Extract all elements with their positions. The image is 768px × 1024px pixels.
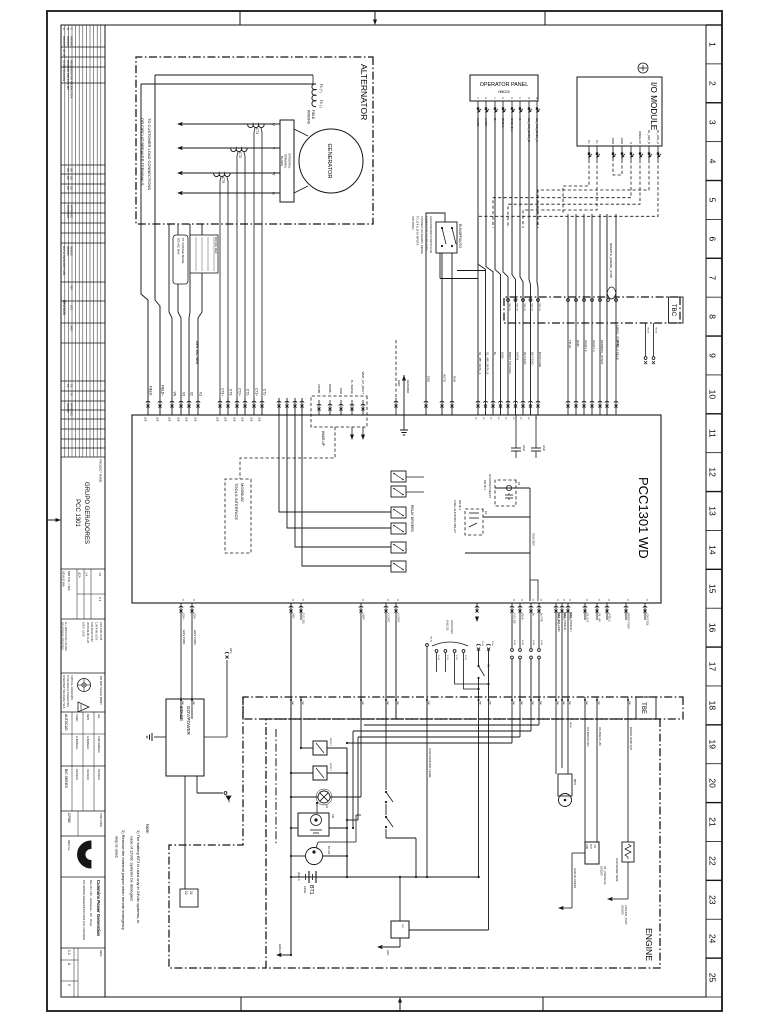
TBE crossings [180,697,630,719]
svg-text:MPU: MPU [573,779,577,785]
svg-text:J18: J18 [185,417,189,422]
svg-text:CK: CK [66,384,69,388]
svg-text:03/03/03: 03/03/03 [86,769,90,780]
svg-text:C-03: C-03 [446,655,448,661]
svg-text:CT2: CT2 [238,152,242,158]
battery positive bus [346,748,348,877]
svg-text:TBE: TBE [427,701,429,706]
svg-text:4: 4 [708,159,718,164]
dashed gnd wire [394,340,401,415]
svg-text:J18: J18 [241,417,245,422]
svg-text:STARTER RELAY: STARTER RELAY [488,474,492,498]
svg-text:0.10-0.99 ±0.25: 0.10-0.99 ±0.25 [99,622,103,641]
svg-text:GB: GB [66,176,69,180]
svg-text:TBC-03: TBC-03 [523,303,525,311]
label TBC [669,297,684,323]
svg-text:C-02: C-02 [455,655,457,661]
svg-text:TB-10: TB-10 [568,340,572,349]
field winding coil [307,84,324,125]
svg-text:TBE: TBE [520,701,522,706]
svg-text:TBC-05: TBC-05 [508,303,510,311]
svg-text:FIELD: FIELD [311,110,315,120]
svg-text:INTERPRET PER ASME Y14.5: INTERPRET PER ASME Y14.5 [62,675,65,709]
operator panel box [470,75,538,101]
svg-text:J18: J18 [156,417,160,422]
svg-text:MAG_PICKUP+: MAG_PICKUP+ [569,612,573,632]
svg-text:TBE: TBE [301,701,303,706]
fuel solenoid FS1 [301,738,347,755]
shield ground group [432,620,490,690]
svg-text:OPERATOR PANEL: OPERATOR PANEL [480,82,529,88]
svg-text:INITIAL RELEASE: INITIAL RELEASE [62,60,66,82]
svg-text:TBE: TBE [361,701,363,706]
svg-text:REVISION: REVISION [62,300,66,316]
svg-text:GND CB07: GND CB07 [532,533,536,547]
svg-text:BT1: BT1 [308,885,314,895]
svg-text:TBE: TBE [531,701,533,706]
svg-text:RELAY DRIVERS: RELAY DRIVERS [410,505,414,533]
svg-text:NOTE 3: NOTE 3 [329,763,331,772]
low coolant level switch [377,636,432,956]
CT1 current transformer [248,124,264,134]
TBC terminal dots [507,299,618,312]
svg-text:1.00-4.99 ±0.50: 1.00-4.99 ±0.50 [95,622,99,641]
svg-text:FAULT 3: FAULT 3 [592,340,596,352]
svg-text:TBE: TBE [396,701,398,706]
PCC left edge terminals (alternator bundle) [144,385,267,422]
switch note text [411,216,433,254]
svg-text:J18: J18 [194,417,198,422]
svg-text:C: C [69,28,73,30]
svg-text:PT VOLTAGE SENSE: PT VOLTAGE SENSE [181,238,185,264]
svg-text:A 4: A 4 [98,597,102,602]
svg-text:BC ALT: BC ALT [327,846,331,855]
svg-text:TBE: TBE [479,701,481,706]
switch wires to PCC [424,213,457,415]
svg-text:RS485+: RS485+ [328,384,332,395]
svg-text:00/00/00: 00/00/00 [66,246,69,256]
generator G1 circle [299,129,363,193]
mag pickup sensor [556,719,577,807]
svg-text:15: 15 [708,584,718,594]
svg-text:11: 11 [708,429,718,438]
svg-text:O-16: O-16 [491,641,493,647]
svg-text:OIL PRESS OUT: OIL PRESS OUT [586,727,590,747]
svg-text:UPDATED PER ECO 123: UPDATED PER ECO 123 [66,60,70,90]
label TBE [636,697,656,719]
svg-text:DO NOT SCALE PRINT: DO NOT SCALE PRINT [99,676,103,705]
svg-text:J18: J18 [168,417,172,422]
TBC group2 wires [566,214,620,415]
svg-text:NOT BOTH.: NOT BOTH. [411,216,415,230]
svg-text:APPROVED: APPROVED [69,205,72,219]
genset lower boundary [169,697,266,968]
battery negative bus [290,603,292,955]
bus junction dots [290,772,348,956]
revision history table [61,25,105,457]
generator to terminal-block leads [294,129,308,193]
svg-text:19: 19 [708,740,718,750]
fuel shutoff relay K2 [453,500,488,535]
svg-text:600 VAC MAX: 600 VAC MAX [214,237,218,254]
svg-text:8: 8 [708,314,718,319]
svg-text:J 8: J 8 [98,572,102,576]
svg-text:TBC-04: TBC-04 [516,303,518,311]
svg-text:OUT-CH2: OUT-CH2 [531,352,535,365]
svg-text:TBE: TBE [556,701,558,706]
inline connector pairs [511,620,542,697]
zone reference strip 1-25 [706,25,722,997]
svg-text:WINDING: WINDING [307,110,311,125]
svg-text:GOV/POWER: GOV/POWER [186,706,191,736]
svg-text:FUEL SOL: FUEL SOL [302,613,305,625]
svg-text:HMI220: HMI220 [498,90,510,94]
label OPERATOR PANEL [480,82,529,94]
pcc interior riser 2 [483,516,530,518]
svg-text:BOOT TO LOAD: BOOT TO LOAD [508,352,512,374]
operator panel wire labels [476,118,539,143]
svg-text:A RUN/OFF/AUTO SWITCH OR: A RUN/OFF/AUTO SWITCH OR [429,216,433,253]
svg-text:PCC1301 WD: PCC1301 WD [636,477,651,559]
svg-text:GB: GB [66,168,69,172]
svg-text:6: 6 [708,236,718,241]
svg-text:AUTOCAD: AUTOCAD [64,714,68,731]
svg-text:RUN: RUN [453,376,457,382]
svg-text:BY: BY [69,393,72,397]
svg-text:SITE CODE: SITE CODE [99,813,103,827]
svg-text:0: 0 [67,984,71,986]
svg-text:CT3-: CT3- [229,389,233,396]
svg-text:9: 9 [708,353,718,358]
capacitor C-gnd 1 [531,415,546,458]
svg-text:Note:: Note: [145,824,150,834]
gov to battery box wires [185,776,231,889]
svg-text:03/03/03: 03/03/03 [97,769,101,780]
svg-text:5.00-29.99 ±0.80: 5.00-29.99 ±0.80 [90,622,94,642]
contact wires [361,620,416,877]
svg-text:CT3+: CT3+ [221,388,225,396]
svg-text:GND: GND [427,376,431,382]
svg-text:K CONT: K CONT [387,613,390,623]
svg-text:NOTE 2: NOTE 2 [483,480,487,491]
PCC1301 main box [132,415,661,603]
TBC boundary strip [504,297,680,323]
io module box [577,77,662,146]
border tick left lower [239,11,241,25]
svg-text:24V: 24V [227,798,231,803]
pcc ground wire [400,375,410,435]
svg-text:RUN/OFF/AUTO: RUN/OFF/AUTO [458,224,462,248]
switch tie-in links [440,253,486,279]
svg-text:24V: 24V [229,648,233,653]
svg-text:03/03/03: 03/03/03 [75,769,79,780]
wake-up arrows [350,427,365,440]
svg-text:ENGINE: ENGINE [644,928,654,961]
svg-text:V3: V3 [182,392,186,396]
border tick right lower [240,997,242,1011]
svg-text:SENDER: SENDER [621,905,624,915]
svg-text:LAMP: LAMP [362,613,365,620]
svg-text:CK: CK [69,384,72,388]
svg-text:WAKE-UP: WAKE-UP [638,131,642,144]
svg-text:GB: GB [66,186,69,190]
svg-text:RL_HBL_B: RL_HBL_B [647,130,651,144]
border arrow left center [373,11,377,25]
svg-text:F2 (-): F2 (-) [319,100,323,108]
remote emergency stop wire [605,214,620,415]
svg-text:13: 13 [708,506,718,516]
svg-text:24Vdc: 24Vdc [303,886,307,894]
title strip top rule [104,25,106,997]
aux row B with S1 switch [476,641,490,878]
wake-up dashed box [311,396,367,427]
svg-text:DWG No: DWG No [67,840,71,851]
io module stubs [587,130,661,160]
svg-text:APPROVED: APPROVED [66,205,69,219]
svg-text:SHIELDS: SHIELDS [446,620,449,631]
svg-text:OUT-CH1: OUT-CH1 [523,352,527,365]
svg-text:CT1-: CT1- [263,389,267,396]
svg-text:ALTERNATOR: ALTERNATOR [359,64,369,120]
svg-text:GND: GND [397,380,401,386]
svg-text:WATER TEMP: WATER TEMP [627,613,630,629]
svg-text:18: 18 [708,701,718,711]
svg-text:GOV-: GOV- [193,613,196,619]
svg-text:J 4: J 4 [85,572,89,576]
svg-text:GROUND: GROUND [406,380,410,394]
io module circled note symbol [638,63,648,73]
svg-text:TBE: TBE [539,701,541,706]
svg-text:CRITICAL DIMENSION: CRITICAL DIMENSION [70,675,73,700]
relay stub arrow [475,603,479,622]
svg-text:GND: GND [611,138,615,144]
svg-text:J18: J18 [258,417,262,422]
pcc interior notch [530,580,538,601]
svg-text:RS485-: RS485- [317,385,321,395]
dashed link wake-up to modbus [240,427,335,479]
svg-text:NOTE 3: NOTE 3 [458,500,462,511]
svg-text:GND: GND [620,138,624,144]
svg-text:J18: J18 [233,417,237,422]
svg-text:I/O MODULE: I/O MODULE [649,82,658,131]
CT2 current transformer [231,148,247,158]
svg-text:DWN: DWN [86,714,90,720]
svg-text:100.0- ±2.00: 100.0- ±2.00 [81,622,85,637]
svg-text:OTHERWISE SPECIFIED: OTHERWISE SPECIFIED [61,622,64,650]
svg-text:CT3: CT3 [221,177,225,183]
svg-text:G.BABULO: G.BABULO [86,736,90,749]
svg-text:LOW COOLANT LEVEL: LOW COOLANT LEVEL [428,748,432,779]
svg-text:CPGB: CPGB [67,813,71,823]
oil pressure sender [558,719,606,910]
svg-text:F1 (+): F1 (+) [319,84,323,93]
inner dashdot line [275,729,277,845]
svg-text:OUT: OUT [589,844,591,849]
svg-text:P/N: WIRING DIAGRAM PCC1301 GV: P/N: WIRING DIAGRAM PCC1301 GVC CHECKED [82,880,86,940]
svg-text:DATE DESCRIPTION: DATE DESCRIPTION [62,246,66,275]
engine boundary box [266,719,660,968]
svg-text:C-04: C-04 [437,655,439,661]
svg-text:GND WATER TEMP: GND WATER TEMP [615,858,619,882]
svg-text:K CONT: K CONT [397,613,400,623]
svg-text:J18: J18 [216,417,220,422]
svg-text:S1_485_DATA_A: S1_485_DATA_A [478,352,482,374]
svg-text:00/00/00: 00/00/00 [62,36,66,47]
svg-text:MAG_PU_GND: MAG_PU_GND [557,612,561,632]
svg-text:TBE: TBE [562,701,564,706]
svg-text:O-15: O-15 [481,641,483,647]
svg-text:00/00/00: 00/00/00 [66,403,69,413]
svg-text:12: 12 [184,891,188,895]
svg-text:WATER TEMP OUT: WATER TEMP OUT [629,727,633,751]
svg-text:21: 21 [708,817,718,827]
gnd-c06 arrow [276,944,291,957]
svg-text:TBE: TBE [568,701,570,706]
svg-text:EMERG_STOP RE1-A RE1-B: EMERG_STOP RE1-A RE1-B [616,325,620,360]
dashed wires from io module [478,160,658,398]
svg-text:LCL: LCL [401,924,404,929]
svg-text:24: 24 [708,934,718,944]
TBE boundary strip [243,697,683,719]
svg-text:REMOTE_EMERG_STOP: REMOTE_EMERG_STOP [609,243,613,278]
svg-text:CT2+: CT2+ [238,388,242,396]
wake-up terminals [317,372,365,415]
battery BT1 [291,871,347,895]
svg-text:1) The battery BT2 is used onl: 1) The battery BT2 is used only in 24Vdc… [136,830,141,923]
svg-text:3: 3 [708,120,718,125]
svg-text:C: C [518,97,521,99]
svg-text:FUEL SW: FUEL SW [513,613,516,624]
svg-text:H: H [476,97,479,99]
svg-text:RV BY: RV BY [62,49,66,58]
modbus tools interface box [225,479,251,553]
svg-text:TO J1-4 & J1-16 INPUTS.: TO J1-4 & J1-16 INPUTS. [416,216,420,246]
svg-text:TB-16: TB-16 [430,636,432,643]
svg-text:V2: V2 [190,392,194,396]
svg-text:B+: B+ [493,352,497,356]
svg-text:23: 23 [708,895,718,905]
relay driver wires [277,398,424,566]
svg-text:MAG_PICKUP-: MAG_PICKUP- [563,612,567,631]
operator panel stubs [476,97,540,115]
bus link riser [290,876,480,878]
alternator boundary box [136,57,373,224]
svg-text:B+: B+ [595,141,599,145]
svg-text:GOV PWM+: GOV PWM+ [193,630,197,646]
svg-text:RL_HBL_A: RL_HBL_A [656,130,660,144]
svg-text:GND OIL PRESS: GND OIL PRESS [573,868,577,888]
svg-text:U: U [272,123,276,126]
notes block [115,824,151,930]
project name box [61,459,105,569]
svg-text:TBE: TBE [192,701,194,706]
svg-text:SHLD: SHLD [569,722,571,728]
TBC group1 terminals at PCC [474,352,542,420]
svg-text:K1: K1 [517,482,521,486]
svg-text:TB-08: TB-08 [655,327,657,334]
svg-text:TBE: TBE [628,701,630,706]
svg-text:GND: GND [386,950,389,956]
svg-text:CT2-: CT2- [246,389,250,396]
svg-text:OIL OUT: OIL OUT [586,613,589,623]
svg-text:MM TOL ± N/A: MM TOL ± N/A [67,571,71,591]
svg-text:CT1+: CT1+ [255,388,259,396]
relay drivers [391,471,406,572]
svg-text:J18: J18 [250,417,254,422]
svg-text:GENERATOR: GENERATOR [326,144,332,179]
svg-text:TO CUSTOMER LOAD CONNECTIONS: TO CUSTOMER LOAD CONNECTIONS [147,118,152,190]
svg-text:STAGE: STAGE [179,706,184,721]
svg-text:GROUNDED: GROUNDED [450,620,453,634]
svg-text:7: 7 [708,275,718,280]
svg-text:O-04: O-04 [521,640,523,646]
svg-text:OIL PRESS +5V: OIL PRESS +5V [598,727,602,746]
svg-text:GND: GND [292,613,295,619]
svg-text:(Note 1): (Note 1) [297,872,300,881]
battery select box [180,889,198,907]
svg-text:FUEL SHUTOFF RELAY: FUEL SHUTOFF RELAY [453,500,457,533]
svg-text:00/00/00: 00/00/00 [69,36,73,47]
border tick left upper [544,11,546,25]
svg-text:TBE: TBE [181,701,183,706]
svg-text:GND: GND [339,388,343,394]
svg-text:2) Remove the external jumper: 2) Remove the external jumper when remot… [121,830,126,930]
svg-text:CHKD: CHKD [75,714,79,721]
svg-text:GND: GND [522,445,526,451]
svg-text:PCC 1301: PCC 1301 [74,499,80,527]
svg-text:VBAT_UP_INPUT: VBAT_UP_INPUT [361,372,365,395]
svg-text:GB: GB [69,168,72,172]
svg-text:20: 20 [708,778,718,788]
starter relay K1 [483,474,521,506]
pcc interior riser 1 [495,487,530,489]
svg-text:TBE: TBE [585,701,587,706]
svg-text:OIL +5V: OIL +5V [598,613,601,622]
svg-text:FIELD-: FIELD- [149,386,153,396]
voltage sense and field wires to PCC [141,75,202,398]
svg-text:22: 22 [708,856,718,866]
capacitor C-gnd 2 [511,415,526,458]
svg-text:G: G [484,97,487,99]
label GENERATOR TERMINAL BLOCK [280,153,292,169]
relay contact CR2 [385,816,393,828]
svg-text:C-01: C-01 [464,655,466,661]
relay contact CR1 [385,791,393,803]
svg-text:SM: SM [331,814,335,818]
title block [61,569,106,997]
svg-text:NOTE 3: NOTE 3 [329,738,331,747]
svg-text:O-04: O-04 [532,640,534,646]
note box 600 VAC MAX [190,235,218,273]
svg-text:GRUPO GERADORES: GRUPO GERADORES [83,482,89,544]
svg-text:stop is used.: stop is used. [115,836,120,858]
svg-text:TBE: TBE [489,701,491,706]
label TO CUSTOMER LOAD CONNECTIONS [140,118,152,190]
svg-text:APPROVED: APPROVED [69,403,72,417]
gov ground [147,733,166,741]
svg-text:WAKE-UP: WAKE-UP [321,431,325,446]
svg-text:S1_485_DATA_B: S1_485_DATA_B [486,352,490,374]
svg-text:A: A [629,142,633,144]
svg-text:+5V: +5V [593,844,595,849]
mag pickup labels [556,612,573,697]
border arrow right center [398,997,402,1011]
svg-text:N: N [272,192,276,195]
svg-text:TBE: TBE [597,701,599,706]
svg-text:TB-09: TB-09 [647,327,649,334]
inner drawing frame [61,25,706,997]
svg-text:CA673U6RRA: CA673U6RRA [97,736,101,753]
